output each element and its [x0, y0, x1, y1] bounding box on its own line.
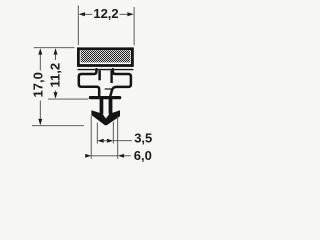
6,0 right extension line [117, 116, 119, 159]
3,5 left extension line [96, 123, 98, 144]
dimension 12,2 right extension line [133, 7, 135, 45]
12,2 right arrow [127, 12, 133, 16]
left leg [100, 98, 104, 114]
17,0 bottom extension line [32, 125, 84, 127]
dimension 17,0 line and arrows [38, 48, 42, 54]
left inner fin [98, 70, 101, 80]
6,0 left extension line [90, 116, 92, 159]
svg-text:11,2: 11,2 [48, 63, 63, 88]
top-left extension line [34, 47, 75, 49]
3,5 arrows and leader [97, 139, 103, 143]
T-bar [89, 96, 122, 99]
thin wall line under magnet box [78, 69, 134, 71]
11,2 bottom extension line [48, 98, 89, 100]
svg-text:12,2: 12,2 [93, 6, 118, 21]
svg-text:3,5: 3,5 [134, 130, 152, 145]
12,2 left arrow [79, 12, 85, 16]
dimension 11,2 line and arrows [54, 48, 58, 54]
bellows left outline [79, 69, 99, 96]
dimension 12,2 left extension line [77, 6, 79, 46]
bellows right outline [110, 69, 131, 96]
right leg [109, 98, 113, 114]
right inner ledge [105, 88, 112, 90]
svg-text:6,0: 6,0 [134, 148, 152, 163]
dart arrowhead barbs [91, 110, 120, 125]
3,5 right extension line [112, 122, 114, 144]
6,0 dimension line, arrows and leader [91, 155, 118, 157]
magnet pocket box [78, 49, 132, 66]
right inner fin [110, 70, 112, 83]
svg-text:17,0: 17,0 [31, 72, 46, 97]
magnet crosshatch fill [81, 50, 131, 62]
